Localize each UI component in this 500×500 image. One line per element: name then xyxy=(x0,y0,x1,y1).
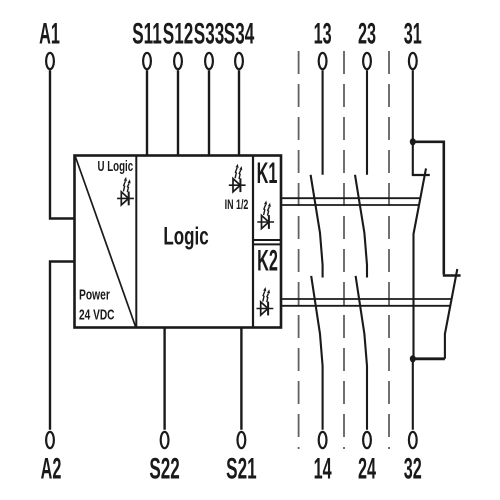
wire S11 xyxy=(146,70,148,156)
relay K1 box divider xyxy=(253,239,281,241)
contact K1 NO 13-14 blade xyxy=(311,175,323,278)
wire A2 to box xyxy=(49,262,75,430)
wire S22 xyxy=(163,328,165,430)
terminal S34 xyxy=(224,18,255,69)
terminal A2 xyxy=(41,432,62,486)
svg-text:S11: S11 xyxy=(132,18,162,51)
terminal S33 xyxy=(194,18,224,69)
svg-text:S12: S12 xyxy=(163,18,193,51)
wire 23 lead xyxy=(366,70,368,175)
terminal 13 xyxy=(314,18,332,70)
logic unit U1 main box xyxy=(75,156,282,328)
contact K2 NC blade xyxy=(445,269,457,359)
wire S21 xyxy=(240,328,242,430)
contact K2 NO 13-14 blade xyxy=(311,276,322,430)
mechanical link K1 row double line xyxy=(281,198,420,205)
contact K1 NO 23-24 blade xyxy=(355,175,367,278)
relay K2 box divider xyxy=(253,243,281,245)
svg-text:IN 1/2: IN 1/2 xyxy=(225,199,249,213)
wire 31 lead xyxy=(412,70,414,142)
svg-text:K1: K1 xyxy=(257,157,278,190)
wire 13 lead xyxy=(322,70,324,175)
contact K2 NC seat xyxy=(443,274,461,277)
LED IN 1/2 xyxy=(229,164,246,192)
wire junction A to NC1 seat xyxy=(412,142,414,175)
svg-text:31: 31 xyxy=(404,18,422,51)
svg-text:Power: Power xyxy=(79,287,110,303)
svg-text:S21: S21 xyxy=(226,453,256,486)
svg-text:A1: A1 xyxy=(39,18,60,51)
dashed separator line 3 xyxy=(388,51,390,449)
contact K2 NO 23-24 blade xyxy=(356,276,367,430)
wire A1 to box xyxy=(49,70,75,218)
node junction B xyxy=(410,355,416,362)
terminal S21 xyxy=(226,432,256,486)
LED K2 xyxy=(257,287,274,315)
mechanical link K2 row double line xyxy=(281,299,452,306)
wire 32 lead xyxy=(412,359,414,430)
contact K1 NC seat xyxy=(412,174,430,176)
terminal 23 xyxy=(358,18,376,70)
svg-text:14: 14 xyxy=(314,452,333,485)
terminal 24 xyxy=(358,432,377,486)
terminal S22 xyxy=(149,432,179,486)
terminal 32 xyxy=(404,432,422,486)
node junction A xyxy=(410,138,416,145)
power section diagonal xyxy=(76,157,136,327)
wire S33 xyxy=(208,70,210,156)
svg-text:S22: S22 xyxy=(149,453,179,486)
dashed separator line 2 xyxy=(343,51,345,449)
K column divider xyxy=(252,156,254,328)
svg-text:A2: A2 xyxy=(41,452,62,485)
contact K1 NC blade xyxy=(414,168,427,358)
svg-text:23: 23 xyxy=(358,18,376,51)
terminal S11 xyxy=(132,18,162,69)
wire right branch top xyxy=(413,142,444,275)
LED K1 xyxy=(257,201,274,229)
svg-text:13: 13 xyxy=(314,18,332,51)
svg-text:32: 32 xyxy=(404,452,422,485)
terminal S12 xyxy=(163,18,193,69)
dashed separator line 1 xyxy=(298,51,300,449)
svg-text:24 VDC: 24 VDC xyxy=(79,307,115,323)
svg-text:S33: S33 xyxy=(194,18,224,51)
wire S34 xyxy=(238,70,240,156)
wire right branch bottom xyxy=(413,357,445,360)
svg-text:U Logic: U Logic xyxy=(98,158,134,174)
svg-text:24: 24 xyxy=(358,452,377,485)
svg-text:Logic: Logic xyxy=(163,222,208,250)
terminal 14 xyxy=(314,432,333,486)
wire S12 xyxy=(177,70,179,156)
power section divider xyxy=(135,156,137,328)
svg-text:S34: S34 xyxy=(224,18,255,51)
terminal 31 xyxy=(404,18,422,70)
terminal A1 xyxy=(39,18,60,70)
svg-text:K2: K2 xyxy=(257,245,278,278)
LED U Logic xyxy=(117,177,134,205)
